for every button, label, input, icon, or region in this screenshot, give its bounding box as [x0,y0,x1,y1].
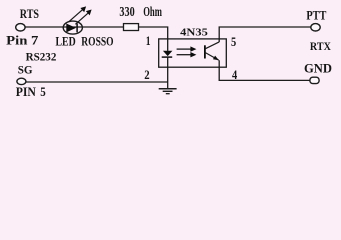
terminal PTT [311,24,320,31]
LED light arrow 2 [75,10,91,25]
svg-text:SG: SG [18,63,33,77]
svg-text:RS232: RS232 [26,50,57,64]
svg-text:GND: GND [304,61,332,75]
light coupling arrow 2 [177,52,197,57]
svg-text:PIN: PIN [16,85,36,99]
LED D1 body [63,21,82,34]
ground symbol [159,89,177,94]
terminal GND [310,77,319,83]
phototransistor emitter [205,52,219,60]
svg-text:PTT: PTT [306,9,326,23]
svg-text:RTS: RTS [20,7,39,21]
wire opto pin 4 emitter to GND terminal [219,60,310,80]
svg-text:LED: LED [56,34,76,48]
wire resistor to opto pin 1 [139,27,168,51]
wire SG to junction [26,81,168,83]
svg-text:Pin 7: Pin 7 [6,34,38,48]
svg-text:330: 330 [119,4,135,19]
terminal RTS [16,24,25,31]
svg-text:RTX: RTX [310,39,331,53]
svg-text:ROSSO: ROSSO [81,34,114,48]
LED D1 cathode bar [76,24,78,33]
phototransistor Q1 base bar [204,45,206,58]
LED light arrow 1 [69,6,86,21]
light coupling arrow 1 [177,46,197,51]
wire RTS through LED to resistor [25,26,123,28]
svg-text:4: 4 [232,68,237,82]
svg-text:4N35: 4N35 [180,27,208,39]
terminal SG [17,78,26,84]
opto internal LED cathode bar [162,56,173,58]
svg-text:5: 5 [231,35,236,49]
phototransistor collector [205,42,219,49]
LED D1 anode triangle [66,24,76,33]
svg-text:Ohm: Ohm [143,4,162,19]
circuit schematic: RS232 to radio PTT opto-isolator [0,0,341,100]
svg-text:1: 1 [146,34,151,48]
svg-text:2: 2 [144,68,149,82]
opto internal LED triangle [163,51,173,56]
optocoupler U1 4N35 package box [159,39,227,67]
resistor R1 body [124,24,139,31]
svg-text:5: 5 [40,85,46,99]
wire opto pin 2 / diode cathode down to ground junction [167,58,169,89]
wire PTT rail to opto pin 5 [219,27,311,42]
